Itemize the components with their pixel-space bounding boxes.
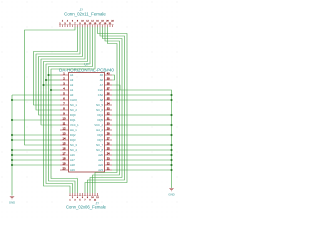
J1 pin 9 [79, 23, 81, 27]
J1 pin 15 [94, 23, 97, 27]
svg-text:34: 34 [107, 101, 110, 105]
wire branch to U1 pin4 [51, 89, 60, 91]
svg-text:17: 17 [63, 151, 66, 155]
svg-text:A20: A20 [98, 153, 103, 157]
wire branch to U1 pin1 [49, 74, 61, 76]
svg-text:GND: GND [168, 193, 174, 197]
junction left bus 140 [11, 139, 13, 141]
svg-text:DQ6: DQ6 [97, 133, 103, 137]
svg-text:37: 37 [107, 86, 110, 90]
wire J1 pin20 wrap to J2 pin11 [95, 27, 117, 193]
J1 pin 21 [109, 23, 112, 27]
svg-text:28: 28 [107, 131, 110, 135]
svg-text:CS2: CS2 [98, 93, 104, 97]
U1 pin 10 DQ1 [60, 116, 76, 122]
junction left bus 100 [11, 99, 13, 101]
U1 pin 19 A18 [60, 161, 75, 167]
J1 pin 6 [72, 21, 74, 27]
wire J1 pin16 wrap to J2 pin7 [85, 27, 127, 193]
wire right bus tap 100 [112, 99, 172, 101]
U1 pin 24 A20 [98, 151, 112, 157]
J2 pin 7 [84, 193, 86, 201]
svg-text:23: 23 [107, 156, 110, 160]
wire J1 pin10 to U1 pin9 [39, 27, 83, 115]
svg-text:NC_6: NC_6 [96, 108, 103, 112]
U1 pin 4 A1 [60, 86, 74, 92]
junction right bus 170 [170, 169, 172, 171]
svg-text:DQ1: DQ1 [70, 118, 76, 122]
svg-text:14: 14 [63, 136, 66, 140]
U1 pin 2 A3 [60, 76, 74, 82]
U1 pin 22 A22 [98, 161, 112, 167]
J2 pin 11 [94, 193, 97, 201]
svg-text:CLK#: CLK# [70, 98, 77, 102]
junction left bus 150 [11, 149, 13, 151]
U1 pin 35 A8 [100, 96, 112, 102]
svg-text:24: 24 [107, 151, 110, 155]
U1 pin 12 HA_1 [60, 126, 77, 132]
svg-text:A19: A19 [70, 168, 75, 172]
U1 pin 28 DQ6 [97, 131, 112, 137]
svg-text:26: 26 [107, 141, 110, 145]
U1 pin 36 CS2 [98, 91, 112, 97]
svg-text:10: 10 [63, 116, 66, 120]
svg-text:A8: A8 [100, 98, 104, 102]
U1 pin 15 NC_3 [60, 141, 77, 147]
junction tap row90 [50, 89, 52, 91]
U1 pin 25 NC_8 [96, 146, 112, 152]
U1 pin 5 A0 [60, 91, 74, 97]
svg-text:21: 21 [107, 166, 110, 170]
wire J1 pin13 pass-through to J2 pin2 [46, 27, 90, 193]
svg-text:20: 20 [63, 166, 66, 170]
U1 pin 7 NC_1 [60, 101, 77, 107]
ground GND left [9, 197, 15, 205]
J1 pin 22 [111, 21, 114, 27]
svg-text:GND: GND [9, 201, 15, 205]
svg-text:29: 29 [107, 126, 110, 130]
junction left bus 120 [11, 119, 13, 121]
J1 pin 3 [64, 23, 66, 27]
svg-text:22: 22 [107, 161, 110, 165]
svg-text:NC_8: NC_8 [96, 148, 103, 152]
wire right bus tap 150 [112, 149, 172, 151]
U1 pin 32 DQ4 [97, 111, 112, 117]
svg-text:DQ7: DQ7 [97, 138, 103, 142]
U1 pin 3 A2 [60, 81, 74, 87]
wire right bus tap 155 [112, 154, 172, 156]
wire left bus top to U1 pin5 [12, 94, 60, 96]
svg-text:39: 39 [107, 76, 110, 80]
svg-text:NC_3: NC_3 [70, 143, 77, 147]
svg-text:A22: A22 [98, 163, 103, 167]
svg-text:DQ2: DQ2 [70, 133, 76, 137]
svg-text:A5: A5 [100, 73, 104, 77]
wire J1 pin19 wrap to J2 pin10 [93, 27, 120, 193]
U1 pin 20 A19 [60, 166, 75, 172]
junction right bus 135 [170, 134, 172, 136]
U1 pin 14 DQ3 [60, 136, 76, 142]
svg-text:13: 13 [63, 131, 66, 135]
J1 pin 12 [86, 21, 89, 27]
svg-text:19: 19 [63, 161, 66, 165]
J2 pin 2 [72, 193, 74, 199]
U1 pin 9 DQ0 [60, 111, 76, 117]
svg-text:36: 36 [107, 91, 110, 95]
J1 pin 1 [59, 23, 61, 27]
wire right bus tap 165 [112, 164, 172, 166]
wire right bus tap 95 [112, 94, 172, 96]
wire left bus to U1 row 150 [12, 149, 60, 151]
U1 pin 18 A17 [60, 156, 75, 162]
junction right bus 145 [170, 144, 172, 146]
svg-text:CLK: CLK [98, 88, 103, 92]
svg-text:A18: A18 [70, 163, 75, 167]
svg-text:DQ4: DQ4 [97, 113, 103, 117]
junction right bus 165 [170, 164, 172, 166]
svg-text:18: 18 [63, 156, 66, 160]
J2 pin 9 [89, 193, 91, 201]
U1 pin 27 DQ7 [97, 136, 112, 142]
U1 pin 21 A23 [98, 166, 112, 172]
svg-text:A2: A2 [70, 83, 74, 87]
svg-text:A17: A17 [70, 158, 75, 162]
wire branch to U1 pin2 [46, 79, 60, 81]
junction right bus 115 [170, 114, 172, 116]
svg-text:16: 16 [63, 146, 66, 150]
svg-text:A21: A21 [98, 158, 103, 162]
wire U1 pin37 to right GND bus [112, 90, 172, 188]
wire J1 pin14 pass-through to J2 pin3 [49, 27, 93, 193]
svg-text:NC_2: NC_2 [70, 108, 77, 112]
svg-text:38: 38 [107, 81, 110, 85]
svg-text:30: 30 [107, 121, 110, 125]
wire left bus to U1 row 155 [12, 154, 60, 156]
svg-text:27: 27 [107, 136, 110, 140]
J2 pin 10 [91, 193, 94, 199]
svg-text:A0: A0 [70, 93, 74, 97]
wire right bus tap 115 [112, 114, 172, 116]
J2 pin 1 [69, 193, 71, 201]
U1 pin 39 A6 [100, 76, 112, 82]
U1 pin 16 NC_4 [60, 146, 77, 152]
wire right bus tap 160 [112, 159, 172, 161]
wire J1 pin9 to U1 pin8 [36, 27, 80, 110]
junction tap row75 [47, 74, 49, 76]
J1 pin 4 [67, 21, 69, 27]
J1 pin 20 [106, 21, 109, 27]
wire left bus to U1 row 165 [12, 164, 60, 166]
svg-text:NC_7: NC_7 [96, 143, 103, 147]
svg-text:40: 40 [107, 71, 110, 75]
svg-text:A4: A4 [70, 73, 74, 77]
wire J1 pin11 to U1 pin11 [41, 27, 85, 125]
U1 pin 37 CLK [98, 86, 112, 92]
wire left bus to U1 row 120 [12, 119, 60, 121]
junction left bus 155 [11, 154, 13, 156]
wire right bus tap 135 [112, 134, 172, 136]
svg-text:31: 31 [107, 116, 110, 120]
svg-text:A16: A16 [70, 153, 75, 157]
svg-text:15: 15 [63, 141, 66, 145]
wire right bus tap 170 [112, 169, 172, 171]
svg-text:A1: A1 [70, 88, 74, 92]
U1 pin 23 A21 [98, 156, 112, 162]
U1 pin 33 NC_6 [96, 106, 112, 112]
svg-text:11: 11 [63, 121, 66, 125]
J1 pin 7 [74, 23, 76, 27]
junction tap row80 [45, 79, 47, 81]
wire J1 pin7 to U1 pin15 via left bus x24.5 [25, 27, 76, 145]
U1 pin 17 A16 [60, 151, 75, 157]
U1 pin 8 NC_2 [60, 106, 77, 112]
wire J1 pin18 wrap to J2 pin9 [90, 27, 122, 193]
U1 pin 30 VCC_2 [94, 121, 112, 127]
svg-text:33: 33 [107, 106, 110, 110]
J1 pin 2 [62, 21, 64, 27]
svg-text:DQ5: DQ5 [97, 118, 103, 122]
junction right bus 160 [170, 159, 172, 161]
svg-text:VCC_2: VCC_2 [94, 123, 103, 127]
J1 pin 11 [84, 23, 87, 27]
J2 pin 5 [79, 193, 81, 201]
wire J1 pin12 pass-through to J2 pin1 [44, 27, 88, 193]
junction right bus 155 [170, 154, 172, 156]
op-amp U1 body [69, 73, 105, 173]
wire right bus tap 125 [112, 124, 172, 126]
wire left bus to U1 row 100 [12, 99, 60, 101]
svg-text:U?: U? [84, 63, 88, 67]
junction right bus 125 [170, 124, 172, 126]
svg-text:Conn_02x06_Female: Conn_02x06_Female [66, 205, 107, 210]
J2 pin 3 [74, 193, 76, 201]
junction right bus 100 [170, 99, 172, 101]
wire J1 pin8 to U1 pin7 [34, 27, 78, 105]
wire right bus tap 145 [112, 144, 172, 146]
svg-text:HA_2: HA_2 [96, 128, 103, 132]
wire left bus to U1 row 135 [12, 134, 60, 136]
junction left bus 165 [11, 164, 13, 166]
ground GND right [168, 189, 174, 197]
wire J1 pin17 wrap to J2 pin8 [88, 27, 125, 193]
svg-text:VCC_1: VCC_1 [70, 123, 79, 127]
svg-text:HA_1: HA_1 [70, 128, 77, 132]
U1 pin 13 DQ2 [60, 131, 76, 137]
J1 pin 13 [89, 23, 92, 27]
svg-text:32: 32 [107, 111, 110, 115]
U1 pin 29 HA_2 [96, 126, 112, 132]
J2 pin 6 [82, 193, 84, 199]
U1 pin 31 DQ5 [97, 116, 112, 122]
svg-text:A6: A6 [100, 78, 104, 82]
svg-text:25: 25 [107, 146, 110, 150]
J1 pin 17 [99, 23, 102, 27]
J2 pin 12 [96, 193, 99, 199]
svg-text:A3: A3 [70, 78, 74, 82]
J1 pin 19 [104, 23, 107, 27]
wire U1 pin38 to pin37 link [112, 85, 120, 90]
U1 pin 1 A4 [60, 71, 74, 77]
wire J1 pin15 pass-through to J2 pin4 [51, 27, 95, 193]
J1 pin 14 [91, 21, 94, 27]
svg-text:Conn_02x11_Female: Conn_02x11_Female [64, 11, 106, 16]
wire left GND bus [11, 95, 13, 196]
J1 pin 10 [81, 21, 84, 27]
U1 pin 11 VCC_1 [60, 121, 79, 127]
svg-text:12: 12 [63, 126, 66, 130]
wire branch to U1 pin3 [44, 84, 61, 86]
svg-text:DQ3: DQ3 [70, 138, 76, 142]
junction right bus 95 [170, 94, 172, 96]
junction right bus 150 [170, 149, 172, 151]
svg-text:DQ0: DQ0 [70, 113, 76, 117]
svg-text:A23: A23 [98, 168, 103, 172]
J1 pin 18 [101, 21, 104, 27]
J2 pin 8 [87, 193, 89, 199]
U1 pin 6 CLK# [60, 96, 77, 102]
J1 pin 5 [69, 23, 71, 27]
J1 pin 8 [77, 21, 79, 27]
svg-text:NC_4: NC_4 [70, 148, 77, 152]
svg-text:35: 35 [107, 96, 110, 100]
U1 pin 40 A5 [100, 71, 112, 77]
J2 pin 4 [77, 193, 79, 199]
junction left bus 135 [11, 134, 13, 136]
U1 pin 26 NC_7 [96, 141, 112, 147]
wire left bus to U1 row 140 [12, 139, 60, 141]
J1 pin 16 [96, 21, 99, 27]
svg-text:A7: A7 [100, 83, 104, 87]
U1 pin 38 A7 [100, 81, 112, 87]
U1 pin 34 NC_5 [96, 101, 112, 107]
svg-text:NC_1: NC_1 [70, 103, 77, 107]
wire U1 pin40 to pin39 link [112, 75, 115, 80]
junction tap row85 [42, 84, 44, 86]
svg-text:NC_5: NC_5 [96, 103, 103, 107]
junction left bus 160 [11, 159, 13, 161]
wire left bus to U1 row 160 [12, 159, 60, 161]
